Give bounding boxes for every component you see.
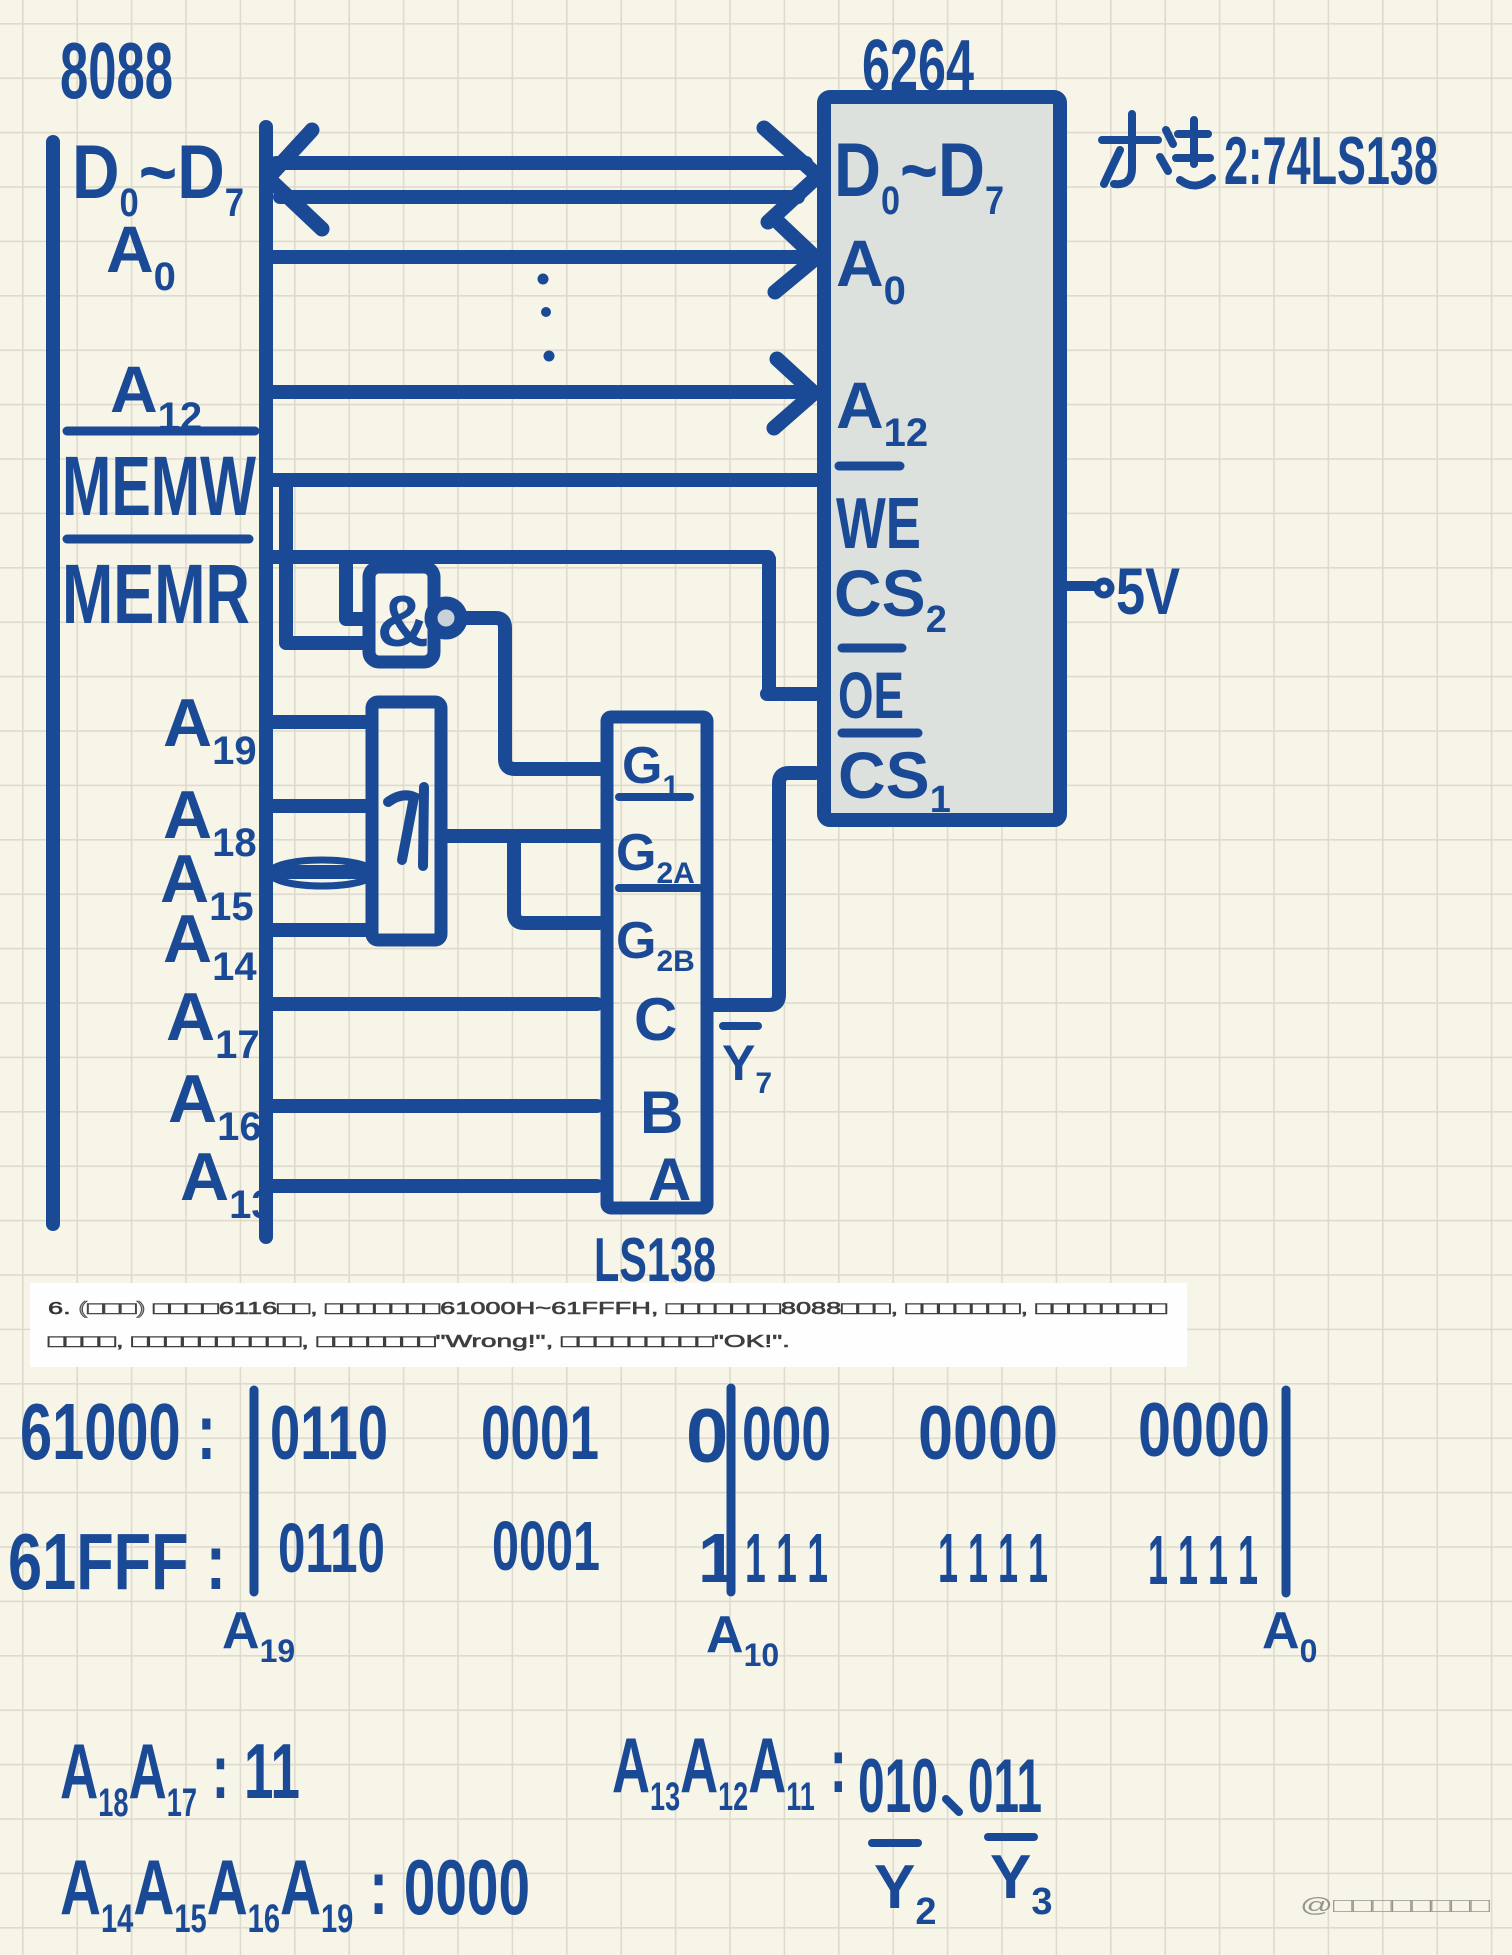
overline MEMR	[67, 535, 249, 544]
wire MEMR down to OE	[767, 559, 816, 694]
svg-text:WE: WE	[836, 484, 921, 564]
separator bar A19 column	[250, 1390, 259, 1592]
wire MEMW tap to AND gate input	[286, 483, 364, 643]
LS138 decoder box	[607, 717, 707, 1208]
svg-text:61000 :: 61000 :	[20, 1387, 216, 1476]
A15 stub loop artifact	[270, 860, 374, 886]
svg-text:6. (□□□) □□□□6116□□, □□□□□□□61: 6. (□□□) □□□□6116□□, □□□□□□□61000H~61FFF…	[48, 1298, 1168, 1318]
wire data bus bottom line	[280, 190, 798, 204]
ellipsis dots	[538, 274, 549, 285]
label Y2 with overline	[872, 1839, 918, 1847]
overline CS1	[842, 729, 918, 738]
svg-text:1: 1	[698, 1519, 737, 1597]
annotation hanzi 方法	[1102, 114, 1212, 186]
dun mark	[946, 1799, 959, 1812]
wire branch down to G2B	[514, 840, 599, 923]
svg-text:@□□□□□□□□: @□□□□□□□□	[1300, 1895, 1490, 1917]
overline Y7	[723, 1022, 758, 1030]
svg-text:0110: 0110	[278, 1509, 385, 1587]
arrowhead A0	[775, 223, 816, 292]
svg-text:6264: 6264	[862, 26, 974, 106]
wire A16 to B	[270, 1099, 597, 1113]
svg-text:MEMW: MEMW	[62, 439, 256, 533]
overline G2B	[619, 884, 699, 892]
svg-text:1 1 1 1: 1 1 1 1	[1148, 1521, 1258, 1599]
label Y3 with overline	[988, 1833, 1034, 1841]
wire MEMW to WE	[266, 473, 816, 487]
svg-text:0110: 0110	[270, 1391, 388, 1476]
svg-text:&: &	[377, 582, 429, 662]
svg-text:B: B	[640, 1079, 683, 1146]
wire A17 to C	[270, 997, 597, 1011]
separator bar A0 column	[1282, 1390, 1291, 1593]
AND gate box	[369, 567, 434, 662]
bus vertical line	[259, 127, 273, 1237]
wire A19 stub	[270, 715, 368, 729]
svg-text:0000: 0000	[1138, 1388, 1270, 1473]
svg-text:8088: 8088	[60, 26, 173, 115]
wire A13 to A	[270, 1179, 597, 1193]
svg-text:1 1 1 1: 1 1 1 1	[938, 1519, 1048, 1597]
arrowhead A12	[774, 359, 814, 428]
svg-text:61FFF :: 61FFF :	[8, 1517, 226, 1606]
svg-text:D0~D7: D0~D7	[72, 130, 244, 225]
svg-text:0: 0	[686, 1394, 728, 1479]
arrowhead left of data bus	[268, 130, 322, 229]
wire Y7 output up to CS1	[710, 773, 815, 1005]
svg-text:A: A	[648, 1146, 691, 1213]
wire A12	[273, 385, 798, 399]
AND gate inverting bubble	[431, 603, 461, 633]
5V terminal circle	[1097, 581, 1111, 595]
svg-text:000: 000	[742, 1392, 831, 1477]
wire AND gate output to LS138 G1	[461, 618, 599, 769]
svg-text:OE: OE	[838, 658, 904, 732]
svg-text:0000: 0000	[918, 1391, 1058, 1476]
svg-text:2:74LS138: 2:74LS138	[1224, 123, 1438, 199]
svg-text:010: 010	[858, 1744, 938, 1829]
overline MEMW	[67, 427, 255, 436]
wire A15 stub	[270, 865, 368, 879]
overline G2A	[619, 793, 690, 801]
separator bar A10 column	[727, 1388, 736, 1592]
wire gate output to G2A	[444, 829, 599, 843]
svg-text:□□□□, □□□□□□□□□□, □□□□□□□"Wron: □□□□, □□□□□□□□□□, □□□□□□□"Wrong!", □□□□□…	[48, 1331, 790, 1351]
wire MEMR horizontal	[266, 550, 768, 564]
svg-text:C: C	[634, 986, 677, 1053]
problem statement white band	[30, 1283, 1187, 1367]
wire MEMR tap to AND gate input	[346, 560, 364, 619]
svg-text:011: 011	[968, 1744, 1042, 1829]
svg-text:0001: 0001	[481, 1391, 599, 1476]
wire A14 stub	[270, 923, 368, 937]
svg-text:0001: 0001	[492, 1507, 600, 1585]
wire data bus top line	[276, 156, 806, 170]
wire A18 stub	[270, 799, 368, 813]
8088 CPU left bus line	[46, 142, 60, 1224]
NOR gate symbol strokes	[388, 787, 424, 866]
overline WE	[839, 462, 900, 471]
wire A0	[273, 250, 798, 264]
NOR gate box	[372, 702, 441, 940]
svg-text:D0~D7: D0~D7	[834, 128, 1004, 223]
svg-text:1 1 1: 1 1 1	[745, 1519, 828, 1597]
6264 memory chip body	[824, 97, 1060, 820]
arrowhead right of data bus into 6264	[764, 128, 818, 222]
overline OE	[842, 644, 902, 653]
svg-text:5V: 5V	[1116, 554, 1180, 628]
wire 5V stub	[1062, 581, 1094, 591]
svg-text:MEMR: MEMR	[62, 547, 250, 641]
